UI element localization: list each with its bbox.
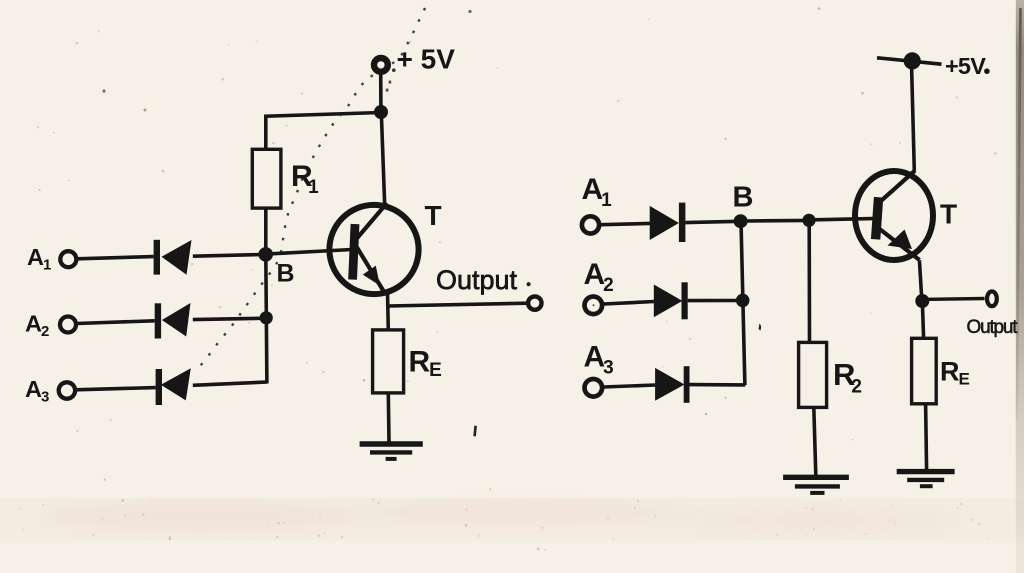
ground (RE right): [897, 472, 955, 487]
wire A3 to diode D3: [75, 388, 155, 390]
power +5V terminal (left): [374, 58, 388, 72]
wire node B to junction (right): [746, 219, 809, 223]
resistor R2: [799, 342, 827, 407]
wire D3 to corner: [193, 382, 267, 385]
wire R2 to ground: [814, 407, 816, 478]
transistor T (right, NPN): [855, 171, 933, 261]
input terminal A1 (right): [582, 216, 599, 233]
svg-text:B: B: [733, 182, 754, 214]
svg-text:+5V: +5V: [945, 53, 986, 79]
resistor RE (left): [373, 330, 404, 393]
transistor T (left, NPN): [329, 203, 418, 294]
wire node B down to A3 corner: [266, 254, 267, 383]
wire +5V to junction: [379, 73, 383, 107]
wire node B down to A3 corner (right): [741, 221, 745, 385]
junction on base line (right): [802, 214, 815, 227]
svg-text:B: B: [277, 260, 295, 288]
junction at +5V rail (left): [374, 105, 388, 119]
junction dot A2 line (left): [260, 311, 273, 324]
wire A1 to diode D1 (right): [601, 223, 650, 224]
svg-text:T: T: [425, 200, 442, 231]
wire A1 to diode D1: [77, 257, 154, 259]
wire output (right): [922, 297, 985, 301]
node B (left): [258, 247, 273, 262]
input terminal A3 (right): [585, 379, 603, 397]
wire A3 to diode D3 (right): [603, 385, 655, 387]
resistor RE (right): [912, 338, 937, 404]
svg-text:Output: Output: [436, 265, 518, 295]
wire RE to ground (left): [386, 393, 390, 442]
wire node B to transistor base: [271, 250, 352, 254]
power rail +5V (right): [877, 58, 942, 64]
wire D3 to corner (right): [690, 383, 746, 387]
svg-text:+ 5V: + 5V: [397, 44, 456, 75]
wire emitter to output node: [386, 292, 390, 331]
wire junction down to R2: [807, 220, 811, 342]
fold line (dotted diagonal): [196, 0, 429, 371]
wire D2 to junction: [193, 318, 266, 319]
wire D2 to junction (right): [688, 299, 737, 303]
wire output (left): [388, 303, 529, 306]
diode D2 (right circuit): [654, 282, 688, 319]
ground (left circuit): [360, 444, 423, 459]
label + 5V. (right): [945, 53, 990, 79]
wire emitter down (right): [919, 260, 921, 300]
input terminal A2 (left): [60, 317, 76, 333]
wire RE to ground (right): [926, 404, 927, 471]
input terminal A3 (left): [59, 382, 75, 398]
output terminal (left): [528, 296, 541, 309]
diode D3 (left circuit): [156, 368, 191, 405]
diode D3 (right circuit): [655, 366, 689, 403]
diode D1 (right circuit): [650, 203, 686, 242]
resistor R1: [252, 149, 281, 208]
node B (right): [734, 214, 748, 228]
wire A2 to diode D2: [77, 321, 155, 324]
wire D1 to node B (right): [685, 221, 734, 222]
junction at +5V rail (right): [904, 52, 921, 69]
diode D1 (left circuit): [154, 240, 192, 275]
wire junction to RE (right): [922, 300, 923, 338]
diode D2 (left circuit): [155, 303, 191, 339]
wire D1 to node B: [193, 255, 260, 257]
wire junction to R1 top: [266, 113, 381, 151]
svg-text:T: T: [940, 199, 957, 230]
wire R1 bottom to node B: [264, 208, 268, 254]
junction dot A2 line (right): [736, 294, 750, 308]
wire junction to base (right): [814, 219, 873, 220]
wire collector riser (left): [381, 112, 384, 206]
input terminal A2 (right): [585, 297, 603, 315]
output terminal (right): [987, 291, 997, 306]
junction at emitter/output (right): [915, 294, 929, 308]
wire collector riser (right): [912, 67, 915, 171]
ground (R2): [783, 477, 849, 493]
wire A2 to diode D2 (right): [604, 302, 655, 305]
svg-text:Output: Output: [967, 317, 1019, 338]
input terminal A1 (left): [60, 251, 76, 267]
